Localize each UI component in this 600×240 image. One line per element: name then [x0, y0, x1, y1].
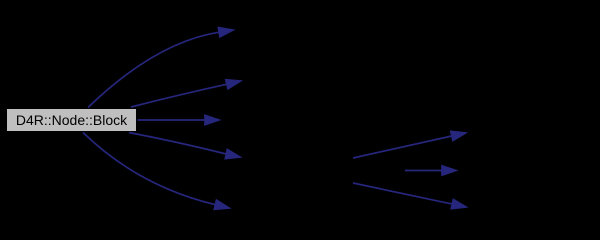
edge 8: hidden middle node to lower-right node [353, 183, 466, 209]
edge 6: hidden middle node to upper-right node [353, 131, 466, 158]
edge 5: D4R::Node::Block to bottom node [83, 133, 229, 210]
edge 2: D4R::Node::Block to second node [131, 80, 241, 107]
edge 4: D4R::Node::Block to fourth node [129, 133, 240, 159]
node D4R::Node::Block box [7, 109, 137, 132]
edge 3: D4R::Node::Block to middle node [138, 115, 220, 124]
svg-text:D4R::Node::Block: D4R::Node::Block [16, 112, 128, 128]
edge 1: D4R::Node::Block to top node [88, 28, 233, 108]
edge 7: hidden middle node to right node [405, 166, 456, 175]
